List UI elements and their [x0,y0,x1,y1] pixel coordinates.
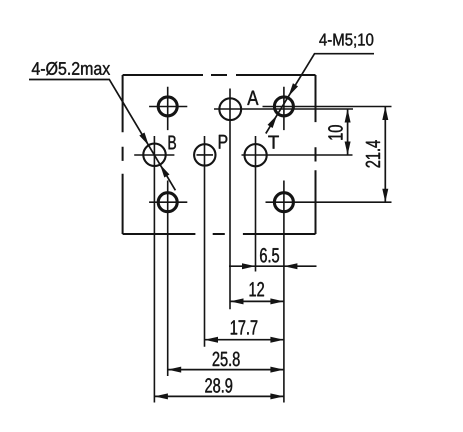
dimension 12 (A column to mounting column) [230,300,284,302]
port hole A [219,98,241,120]
port label A [247,91,258,105]
port label B [169,136,176,150]
dimension 6.5 (T column to mounting column, outside arrows) [229,265,317,267]
port hole P [194,144,215,165]
port hole T [245,144,267,166]
dimension 28.9 (B column to mounting column) [154,395,284,397]
valve mounting face outline (dashed square) [123,75,316,234]
centerline port P (vertical extends to 17.7 dim) [197,136,214,347]
centerline port T (extends right to 10 dim, down to 6.5 dim) [242,136,353,272]
mounting hole M5 top-right [274,97,293,116]
hole centerlines [134,87,391,403]
arrowhead at port B upper-left [139,133,149,146]
port label P [219,135,227,149]
leader note 4-M5;10 [319,33,373,47]
leader note 4-Ø5.2max [32,62,110,75]
arrowhead at mounting hole top-right upper-right [288,83,298,96]
mounting hole M5 bottom-right [274,193,293,212]
centerline mounting hole top-left [149,87,187,130]
centerline mounting hole bottom-left (vertical extends to 25.8 dim) [149,181,187,377]
centerline mounting hole bottom-right (extends to 21.4 and 28.9 dims) [266,181,392,403]
dimension 21.4 (vertical, mounting hole rows) [384,107,386,203]
dimension 25.8 (mounting column to mounting column) [168,369,284,371]
dimension 17.7 (P column to mounting column) [205,339,284,341]
port hole B [143,144,165,166]
arrowhead at port B lower-right [160,164,170,177]
mounting hole M5 bottom-left [158,193,177,212]
centerline mounting hole top-right (extends right as 21.4 extension) [263,87,392,130]
arrowhead at mounting hole top-right lower-left [268,115,278,128]
mounting hole M5 top-left [158,97,177,116]
centerline port A (extends right to 10 dim, down to 12 dim) [214,89,353,310]
centerline port B (vertical extends to 28.9 dim) [134,136,174,403]
dimension 10 (vertical, A row to T row) [347,109,349,155]
port label T [268,136,279,149]
